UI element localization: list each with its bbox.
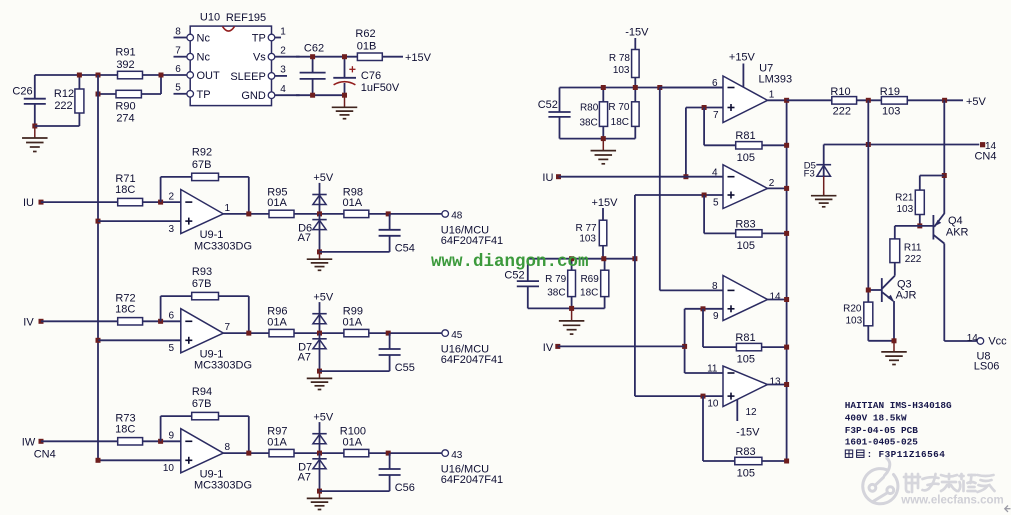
svg-text:A7: A7 (298, 351, 311, 363)
resistor R72 (115, 292, 142, 325)
node dot filter cap (386, 211, 391, 216)
pin 4 GND of U10 (241, 84, 299, 102)
pin 5 TP of U10 (174, 83, 211, 101)
svg-text:2: 2 (168, 191, 174, 202)
svg-text:105: 105 (737, 152, 755, 164)
wire comparator 3 output (768, 299, 787, 301)
wire ref bus to comparator3 (660, 88, 723, 291)
svg-text:14: 14 (770, 291, 782, 302)
svg-text:Vs: Vs (253, 52, 266, 64)
svg-text:5: 5 (713, 197, 719, 208)
svg-text:01A: 01A (267, 197, 287, 209)
resistor R73 (115, 412, 142, 445)
svg-text:U7: U7 (759, 62, 773, 74)
input IU right (542, 172, 723, 184)
label +15V comparator supply (729, 52, 756, 88)
resistor R69 (580, 259, 609, 309)
svg-text:AKR: AKR (946, 226, 969, 238)
svg-text:TP: TP (197, 89, 211, 101)
node dot R80 top (601, 85, 606, 90)
wire IV input line (41, 320, 118, 322)
svg-text:8: 8 (712, 281, 718, 292)
resistor R71 (115, 173, 142, 206)
wire CN4 row (824, 144, 980, 146)
svg-text:+5V: +5V (313, 411, 334, 423)
svg-text:C56: C56 (395, 482, 415, 494)
svg-text:01A: 01A (267, 436, 287, 448)
wire to clamp node (294, 452, 344, 454)
svg-text:18C: 18C (580, 287, 598, 298)
ground below clamp (307, 252, 333, 270)
svg-text:R 77: R 77 (575, 223, 597, 234)
wire feedback loop R92 (161, 177, 249, 214)
wire Q4 collector to Vcc (944, 244, 977, 342)
svg-text:392: 392 (116, 59, 134, 71)
node dot feedback to output (246, 451, 251, 456)
svg-text:MC3303DG: MC3303DG (194, 241, 252, 253)
pin 7 Nc of U10 (174, 46, 211, 64)
svg-text:+15V: +15V (405, 52, 432, 64)
svg-text:-15V: -15V (736, 426, 760, 438)
label +5V (313, 172, 334, 195)
node dot feedback to output (246, 211, 251, 216)
wire comparator1 plus to IU (686, 108, 723, 177)
node dot clamp ground (317, 369, 322, 374)
wire Q3 base row (868, 289, 882, 291)
svg-text:14: 14 (967, 333, 979, 344)
svg-text:R94: R94 (192, 386, 212, 398)
node dot comparator ref lower (632, 256, 637, 261)
resistor R81 lower (703, 309, 787, 366)
pin 1 TP of U10 (252, 26, 286, 44)
node dot feedback R94 (158, 439, 163, 444)
svg-text:38C: 38C (579, 118, 597, 129)
svg-text:+5V: +5V (966, 96, 987, 108)
resistor R10 (830, 86, 856, 117)
op-amp U9-1 stage 3 (163, 429, 252, 492)
resistor R11 (890, 226, 922, 276)
node dot clamp (317, 211, 322, 216)
svg-text:www.diangon.com: www.diangon.com (431, 252, 589, 272)
label U16/MCU (441, 464, 503, 487)
svg-text:18C: 18C (115, 423, 135, 435)
svg-text:R81: R81 (735, 130, 755, 142)
svg-text:1: 1 (280, 26, 286, 37)
resistor R62 (355, 28, 382, 61)
svg-text:U10: U10 (200, 12, 220, 24)
label +5V (313, 411, 334, 434)
node dot comparator4 plus (701, 394, 706, 399)
ground below C76 (332, 95, 358, 119)
node dot clamp ground (317, 489, 322, 494)
wire R10 to R19 (857, 99, 882, 101)
svg-text:105: 105 (737, 240, 755, 252)
node dot comparator2 plus (702, 193, 707, 198)
svg-text:6: 6 (168, 311, 174, 322)
svg-text:R69: R69 (580, 274, 599, 285)
wire +15V divider bottom line (528, 307, 605, 309)
svg-text:C76: C76 (361, 70, 381, 82)
svg-text:4: 4 (280, 84, 286, 95)
node dot clamp (317, 331, 322, 336)
wire op-amp output (223, 332, 269, 334)
diode D7 lower (298, 333, 327, 371)
svg-text:8: 8 (175, 26, 181, 37)
svg-text:+15V: +15V (729, 52, 756, 64)
svg-text:R 78: R 78 (609, 53, 631, 64)
capacitor C52 upper (538, 88, 571, 139)
node dot R79 top (569, 256, 574, 261)
node dot CN4 row (866, 142, 871, 147)
capacitor C62 (300, 43, 326, 95)
svg-text:MC3303DG: MC3303DG (194, 480, 252, 492)
svg-text:01A: 01A (343, 316, 363, 328)
resistor R79 (545, 259, 575, 309)
ground below D5 (811, 192, 837, 207)
resistor R100 (340, 426, 369, 457)
wire R72 to inverting input (143, 320, 181, 322)
svg-text:R81: R81 (735, 332, 755, 344)
svg-text:www.elecfans.com: www.elecfans.com (900, 494, 1003, 506)
ground below clamp (307, 371, 333, 389)
comparator U7 section 4 (707, 364, 781, 410)
wire Vs rail (296, 56, 403, 58)
svg-text:67B: 67B (192, 278, 212, 290)
svg-text:10: 10 (163, 463, 175, 474)
node dot R90/R91 right (159, 73, 164, 78)
node dot R90 left (96, 92, 101, 97)
resistor R92 (192, 147, 219, 181)
svg-text:R11: R11 (904, 242, 922, 253)
svg-text:222: 222 (905, 254, 922, 265)
svg-text::: : (867, 449, 873, 460)
resistor R19 (880, 86, 907, 117)
wire IW input line (41, 440, 118, 442)
node dot output bus (784, 459, 789, 464)
node dot clamp ground (317, 249, 322, 254)
svg-text:U9-1: U9-1 (200, 348, 224, 360)
wire GND rail (296, 94, 345, 96)
node dot filter cap (386, 331, 391, 336)
svg-text:103: 103 (613, 65, 630, 76)
capacitor C56 (320, 453, 415, 494)
svg-text:F3P-04-05 PCB: F3P-04-05 PCB (845, 425, 919, 436)
svg-text:43: 43 (451, 450, 463, 461)
diode clamp upper (312, 195, 326, 214)
capacitor C76 electrolytic (333, 57, 400, 95)
svg-text:5: 5 (168, 343, 174, 354)
resistor R70 (608, 88, 639, 139)
wire + input line (98, 220, 181, 222)
resistor R77 (575, 220, 606, 246)
svg-text:R90: R90 (115, 101, 135, 113)
svg-text:400V 18.5kW: 400V 18.5kW (845, 413, 907, 424)
svg-text:1601-0405-025: 1601-0405-025 (845, 437, 919, 448)
node dot output bus (784, 345, 789, 350)
svg-text:48: 48 (451, 211, 463, 222)
svg-text:01A: 01A (343, 197, 363, 209)
wire Q3 emitter down (893, 301, 895, 341)
svg-text:TP: TP (252, 33, 266, 45)
svg-text:Q4: Q4 (948, 215, 963, 227)
svg-text:C52: C52 (538, 99, 558, 111)
svg-text:8: 8 (225, 442, 231, 453)
svg-text:103: 103 (882, 106, 900, 118)
node dot Q3 base (866, 288, 871, 293)
node dot bus to + input (96, 458, 101, 463)
svg-text:R62: R62 (355, 28, 375, 40)
svg-text:18C: 18C (115, 184, 135, 196)
node dot C62 bottom (310, 93, 315, 98)
node dot C62 top (310, 54, 315, 59)
capacitor C26 (12, 75, 45, 126)
wire to clamp node (294, 213, 344, 215)
svg-text:1: 1 (225, 203, 231, 214)
wire feedback loop R93 (161, 296, 249, 333)
node dot C76 bottom (342, 93, 347, 98)
wire comparator 1 output (768, 99, 787, 101)
diode clamp upper (312, 434, 326, 453)
svg-text:IU: IU (23, 197, 34, 209)
node dot R10 R19 (866, 98, 871, 103)
watermark elecfans logo (863, 458, 898, 504)
resistor R94 (192, 386, 219, 420)
svg-text:U9-1: U9-1 (200, 468, 224, 480)
svg-text:R80: R80 (580, 102, 599, 113)
resistor R96 (267, 306, 294, 337)
pin 12 -15V comparator supply (736, 400, 760, 439)
svg-text:R10: R10 (830, 86, 850, 98)
node dot IU to comparator1 (683, 174, 688, 179)
svg-text:LM393: LM393 (758, 74, 792, 86)
label U7 LM393 (758, 62, 792, 85)
transistor Q3 (882, 276, 917, 302)
wire reference bus vertical (98, 75, 181, 460)
svg-text:01A: 01A (343, 436, 363, 448)
svg-text:+15V: +15V (592, 197, 619, 209)
svg-text:7: 7 (175, 46, 181, 57)
diode D7 lower (298, 453, 327, 491)
svg-text:AJR: AJR (896, 290, 917, 302)
resistor R91 (115, 46, 142, 79)
label U8 LS06 (974, 351, 1000, 373)
op-amp U9-1 stage 1 (168, 190, 252, 253)
resistor R20 (843, 302, 894, 341)
svg-text:2: 2 (280, 46, 286, 57)
pin 3 SLEEP of U10 (230, 65, 287, 83)
svg-text:01A: 01A (267, 316, 287, 328)
wire R77 to node (602, 246, 604, 259)
svg-text:IV: IV (23, 316, 34, 328)
wire +15V divider node line (528, 258, 635, 260)
node dot R12 top (77, 73, 82, 78)
node dot bus top (96, 73, 101, 78)
node dot Q3 emitter ground (892, 338, 897, 343)
svg-text:1uF50V: 1uF50V (361, 82, 400, 94)
svg-text:64F2047F41: 64F2047F41 (441, 354, 503, 366)
svg-text:R20: R20 (843, 303, 862, 314)
svg-text:103: 103 (845, 315, 862, 326)
terminal 14 CN4 (974, 141, 996, 163)
svg-text:105: 105 (737, 354, 755, 366)
wire to clamp node (294, 332, 344, 334)
svg-text:7: 7 (713, 110, 719, 121)
svg-text:105: 105 (737, 467, 755, 479)
svg-text:R 70: R 70 (608, 102, 630, 113)
resistor R78 (609, 50, 639, 78)
wire to output terminal (369, 452, 442, 454)
svg-text:7: 7 (225, 322, 231, 333)
input IU (23, 197, 44, 209)
svg-text:IW: IW (22, 436, 36, 448)
node dot R78 bottom (633, 85, 638, 90)
node dot IV junction (682, 344, 687, 349)
svg-text:R21: R21 (895, 192, 914, 203)
resistor R97 (267, 426, 294, 457)
wire +5V vertical to Q4 (943, 100, 945, 214)
wire ref bus to comparators 2 and 4 (635, 195, 723, 396)
svg-text:A7: A7 (298, 232, 311, 244)
resistor R83 lower (703, 396, 787, 479)
svg-text:18C: 18C (115, 303, 135, 315)
svg-text:C62: C62 (304, 43, 324, 55)
svg-text:Vcc: Vcc (988, 336, 1007, 348)
svg-text:13: 13 (770, 376, 782, 387)
svg-text:U9-1: U9-1 (200, 229, 224, 241)
node dot output bus (784, 186, 789, 191)
node dot output bus (784, 231, 789, 236)
label +15V mid supply (592, 197, 619, 220)
svg-text:3: 3 (280, 65, 286, 76)
svg-text:R93: R93 (192, 266, 212, 278)
diode D6 lower (298, 214, 327, 252)
svg-text:+5V: +5V (313, 291, 334, 303)
wire divider bottom line (560, 138, 636, 140)
svg-text:6: 6 (175, 64, 181, 75)
wire comparator 4 output (768, 384, 787, 386)
svg-text:10: 10 (707, 399, 719, 410)
svg-text:C54: C54 (395, 243, 415, 255)
wire output row to R10 (787, 99, 832, 101)
pin 6 OUT of U10 (175, 64, 220, 82)
svg-text:103: 103 (579, 234, 596, 245)
svg-text:18C: 18C (611, 117, 629, 128)
svg-text:LS06: LS06 (974, 361, 1000, 373)
diode D5 (804, 145, 831, 196)
wire comparator 2 output (768, 187, 787, 189)
svg-text:9: 9 (168, 431, 174, 442)
IC U10 REF195 body (190, 12, 271, 106)
capacitor C55 (320, 333, 415, 374)
node dot R21 tap (942, 173, 947, 178)
wire R71 to inverting input (143, 201, 181, 203)
svg-text:R91: R91 (115, 46, 135, 58)
node dot +5V pullup (942, 98, 947, 103)
svg-text:HAITIAN IMS-H34018G: HAITIAN IMS-H34018G (845, 400, 952, 411)
wire C26 to R12 bottom (35, 125, 80, 127)
terminal pin 45 (442, 330, 463, 341)
wire R19 to +5V (907, 99, 963, 101)
node dot comparator1 plus (702, 105, 707, 110)
wire IU input line (41, 201, 118, 203)
wire main vertical to Q3 base (867, 100, 869, 302)
node dot comparator ref upper (657, 85, 662, 90)
svg-text:REF195: REF195 (226, 12, 266, 24)
svg-text:274: 274 (116, 112, 134, 124)
watermark elecfans text (900, 474, 1003, 506)
resistor R95 (267, 187, 294, 218)
ground below clamp (307, 491, 333, 509)
wire op-amp output (223, 213, 269, 215)
node dot output bus (784, 297, 789, 302)
node dot R77 bottom (601, 256, 606, 261)
ground below Q3 (881, 341, 907, 365)
svg-text:64F2047F41: 64F2047F41 (441, 235, 503, 247)
svg-text:222: 222 (54, 100, 72, 112)
svg-text:CN4: CN4 (974, 151, 996, 163)
svg-text:R83: R83 (735, 218, 755, 230)
wire R78 to node (634, 78, 636, 88)
svg-text:A7: A7 (298, 471, 311, 483)
wire feedback loop R94 (161, 416, 249, 453)
wire comparator1 minus stub (660, 87, 723, 89)
svg-text:IU: IU (542, 172, 553, 184)
node dot output bus (784, 98, 789, 103)
node dot filter cap (386, 451, 391, 456)
label U16/MCU (441, 344, 503, 367)
op-amp U9-1 stage 2 (168, 309, 252, 372)
wire R73 to inverting input (143, 440, 181, 442)
svg-text:9: 9 (713, 311, 719, 322)
svg-text:F3: F3 (804, 168, 815, 179)
label -15V supply (625, 26, 649, 49)
svg-text:R 79: R 79 (545, 274, 567, 285)
svg-text:Nc: Nc (197, 33, 211, 45)
node dot bus to + input (96, 338, 101, 343)
input IV right (543, 342, 685, 354)
label +5V (313, 291, 334, 314)
terminal 14 Vcc (967, 333, 1007, 348)
node dot feedback R93 (158, 319, 163, 324)
diode clamp upper (312, 314, 326, 333)
svg-text:Nc: Nc (197, 52, 211, 64)
svg-text:3: 3 (168, 224, 174, 235)
wire R90 up to OUT line (160, 75, 162, 94)
comparator U7 section 3 (712, 276, 781, 323)
svg-text:R92: R92 (192, 147, 212, 159)
node dot ground lower divider (569, 306, 574, 311)
resistor R90 (98, 90, 161, 124)
wire op-amp output (223, 452, 269, 454)
svg-text:45: 45 (451, 330, 463, 341)
svg-text:R83: R83 (735, 446, 755, 458)
node dot output bus (784, 382, 789, 387)
capacitor C54 (320, 214, 415, 255)
input IV (23, 316, 43, 328)
terminal pin 48 (442, 211, 463, 222)
resistor R81 upper (704, 108, 787, 164)
svg-text:R12: R12 (54, 88, 74, 100)
node dot R21 to Q4 base (917, 223, 922, 228)
svg-text:64F2047F41: 64F2047F41 (441, 474, 503, 486)
input IW (22, 436, 56, 460)
wire comparator3 plus to IV (685, 309, 723, 373)
wire + input line (98, 339, 181, 341)
resistor R21 (895, 176, 944, 226)
wire to output terminal (369, 213, 442, 215)
svg-text:38C: 38C (547, 287, 565, 298)
svg-text:CN4: CN4 (34, 449, 56, 461)
